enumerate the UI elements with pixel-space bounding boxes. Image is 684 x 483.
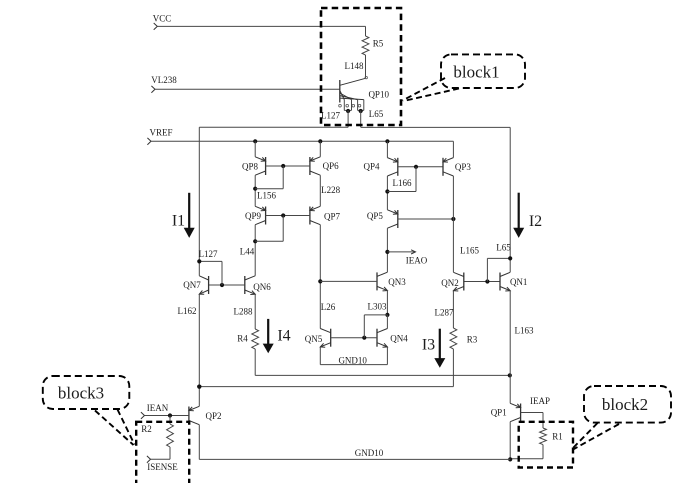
svg-text:QN2: QN2 <box>441 278 459 288</box>
svg-text:L44: L44 <box>240 247 255 257</box>
svg-text:QP6: QP6 <box>323 161 340 171</box>
svg-text:I3: I3 <box>422 337 435 354</box>
svg-text:IEAP: IEAP <box>530 396 550 406</box>
svg-text:L162: L162 <box>178 306 197 316</box>
svg-text:QP10: QP10 <box>368 89 389 99</box>
svg-text:QP3: QP3 <box>455 162 472 172</box>
svg-text:L165: L165 <box>460 246 479 256</box>
svg-text:L163: L163 <box>515 326 534 336</box>
svg-text:QN5: QN5 <box>305 334 323 344</box>
svg-text:L148: L148 <box>345 61 364 71</box>
svg-text:I1: I1 <box>172 213 185 230</box>
svg-text:QP7: QP7 <box>324 212 341 222</box>
svg-text:QN7: QN7 <box>183 280 201 290</box>
svg-text:QP5: QP5 <box>367 211 384 221</box>
svg-text:VL238: VL238 <box>151 75 177 85</box>
svg-text:ISENSE: ISENSE <box>147 462 178 472</box>
svg-text:I4: I4 <box>277 328 290 345</box>
svg-text:VREF: VREF <box>149 128 172 138</box>
svg-text:VCC: VCC <box>153 14 172 24</box>
svg-text:L288: L288 <box>234 306 253 316</box>
svg-text:L127: L127 <box>321 110 340 120</box>
svg-text:QP8: QP8 <box>242 162 259 172</box>
svg-text:L303: L303 <box>368 302 387 312</box>
svg-text:QN1: QN1 <box>510 277 528 287</box>
svg-text:QP2: QP2 <box>205 411 221 421</box>
svg-text:QP1: QP1 <box>491 408 507 418</box>
svg-text:L166: L166 <box>393 178 412 188</box>
svg-text:L287: L287 <box>435 308 454 318</box>
svg-text:QN4: QN4 <box>390 334 408 344</box>
svg-text:L228: L228 <box>321 185 340 195</box>
svg-text:L156: L156 <box>257 191 276 201</box>
svg-text:block1: block1 <box>453 63 499 82</box>
svg-text:L127: L127 <box>199 249 218 259</box>
svg-text:I2: I2 <box>529 213 542 230</box>
svg-text:R1: R1 <box>552 432 563 442</box>
svg-text:IEAO: IEAO <box>406 256 428 266</box>
svg-text:R3: R3 <box>467 335 478 345</box>
svg-text:QN6: QN6 <box>253 282 271 292</box>
svg-text:L26: L26 <box>321 302 336 312</box>
svg-text:QP9: QP9 <box>245 211 262 221</box>
svg-text:block3: block3 <box>58 384 104 403</box>
svg-text:R4: R4 <box>237 334 248 344</box>
svg-text:R2: R2 <box>141 424 152 434</box>
svg-text:L65: L65 <box>369 109 384 119</box>
svg-text:block2: block2 <box>602 395 648 414</box>
svg-text:QP4: QP4 <box>363 162 380 172</box>
svg-text:QN3: QN3 <box>388 277 406 287</box>
svg-text:L65: L65 <box>496 243 511 253</box>
svg-text:GND10: GND10 <box>338 356 367 366</box>
svg-text:GND10: GND10 <box>355 448 384 458</box>
svg-text:IEAN: IEAN <box>147 403 169 413</box>
svg-text:R5: R5 <box>373 39 384 49</box>
